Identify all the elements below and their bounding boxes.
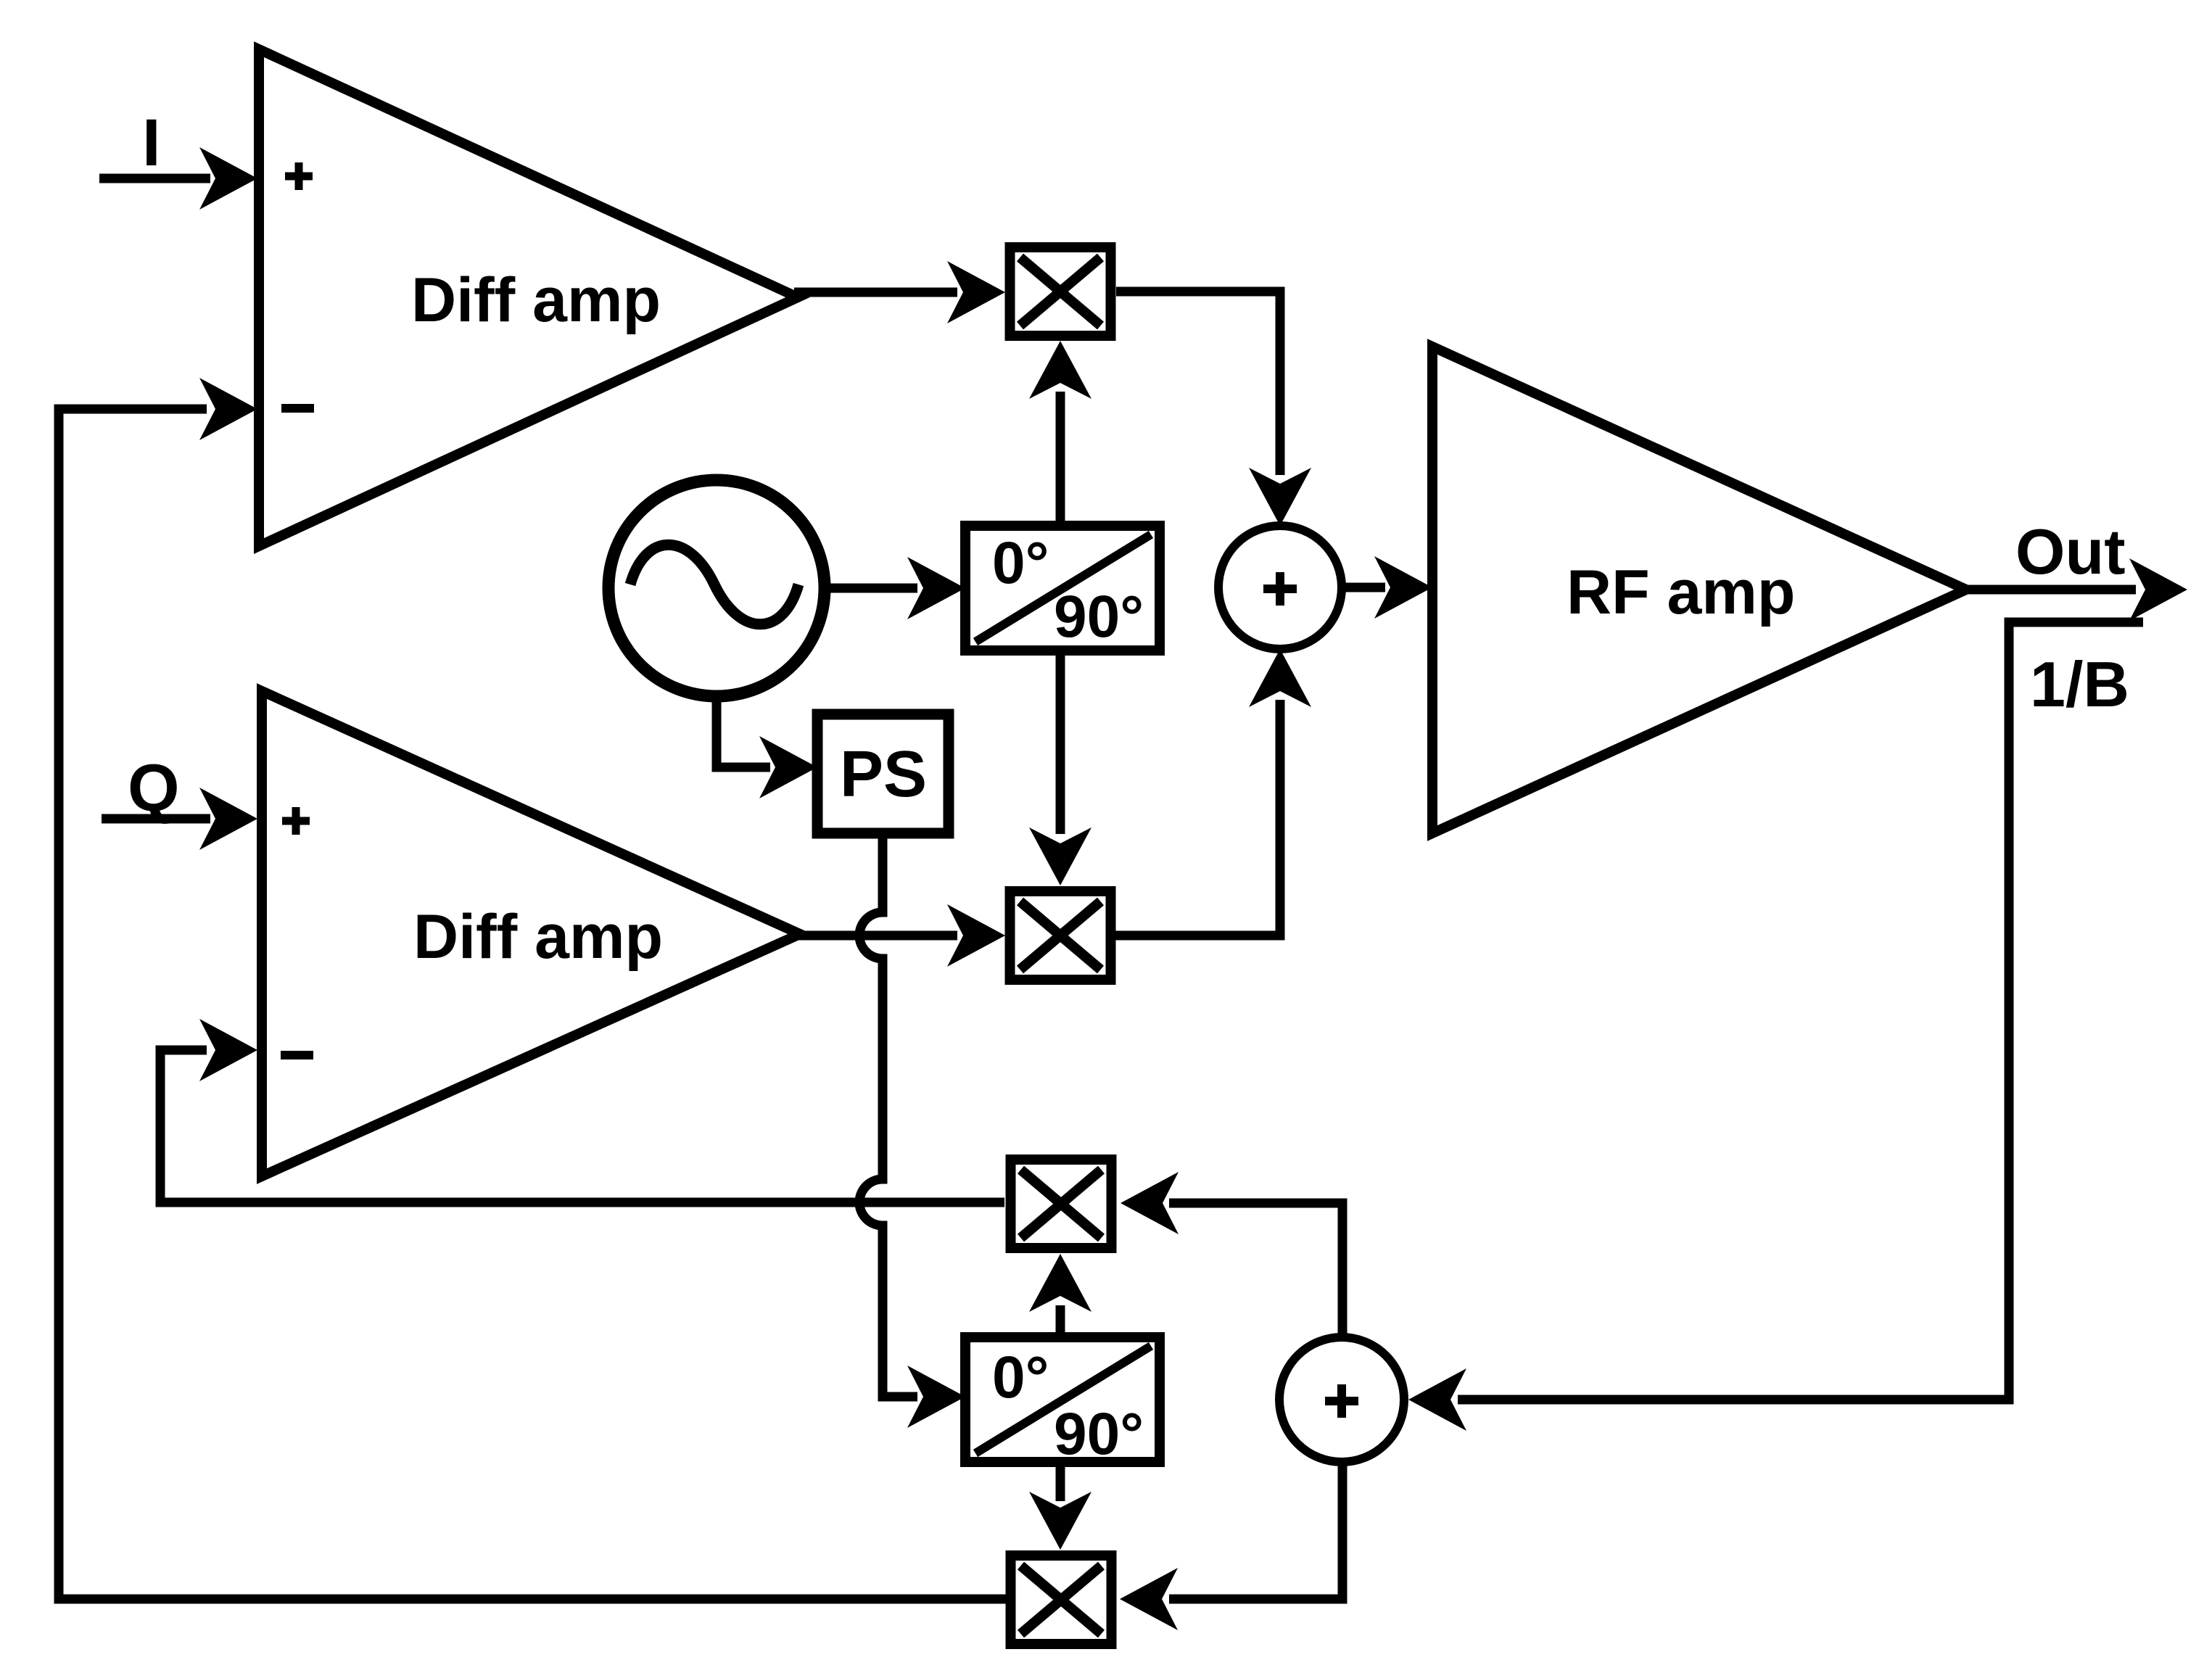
op-amp U2 Diff amp (Q channel) [262,691,800,1176]
wire U2 output to mixer M2 [796,904,1005,967]
wire RX splitter 0deg to mixer M3 [1029,1254,1091,1337]
wire mixer M4 output to U1 - input [59,378,1006,1599]
mixer M2 (Q up-conversion) [1010,891,1111,980]
svg-text:I: I [142,106,161,180]
power splitter 0/90 (RX feedback LO) [965,1337,1160,1467]
wire TX splitter 0deg to mixer M1 [1029,341,1091,526]
wire Q input to U2 + [102,788,257,850]
mixer M4 (Q down-conversion) [1011,1556,1112,1644]
wire LO to TX splitter [825,557,965,619]
mixer M1 (I up-conversion) [1010,247,1111,336]
wire TX splitter 90deg to mixer M2 [1029,650,1091,885]
op-amp U1 Diff amp (I channel) [259,49,798,546]
wire LO to phase shifter PS [717,696,817,798]
wire summer S1 to RF amp [1342,556,1432,619]
wire I input to U1 + [99,147,257,210]
svg-text:0°: 0° [992,530,1049,596]
wire summer S2 to mixer M3 [1121,1172,1342,1337]
summer S2 (feedback splitter) [1279,1337,1404,1462]
svg-text:Out: Out [2015,516,2126,587]
amplifier U3 RF amp [1432,347,1966,833]
svg-text:Diff amp: Diff amp [413,902,663,972]
wire RF amp output (Out) [1966,558,2187,621]
wire output feedback tap 1/B to summer S2 [1408,622,2143,1431]
svg-text:1/B: 1/B [2030,648,2129,720]
wire mixer M1 output to summer S1 [1116,292,1311,526]
svg-text:90°: 90° [1054,1401,1144,1467]
mixer M3 (I down-conversion) [1011,1160,1112,1248]
wire summer S2 to mixer M4 [1120,1462,1342,1630]
phase shifter PS [817,714,949,833]
wire PS to RX feedback splitter (jumps over two wires) [859,833,965,1428]
wire RX splitter 90deg to mixer M4 [1029,1458,1091,1550]
power splitter 0/90 (TX LO) [965,526,1160,650]
svg-text:RF amp: RF amp [1567,558,1795,627]
oscillator LO source [608,480,825,696]
wire mixer M3 output to U2 - input [160,1019,1004,1202]
svg-text:Diff amp: Diff amp [411,265,661,335]
svg-text:PS: PS [840,738,927,811]
summer S1 [1218,526,1342,649]
svg-text:0°: 0° [992,1344,1049,1410]
wire mixer M2 output to summer S1 [1115,649,1311,935]
svg-text:90°: 90° [1054,584,1144,650]
wire U1 output to mixer M1 [794,261,1005,323]
